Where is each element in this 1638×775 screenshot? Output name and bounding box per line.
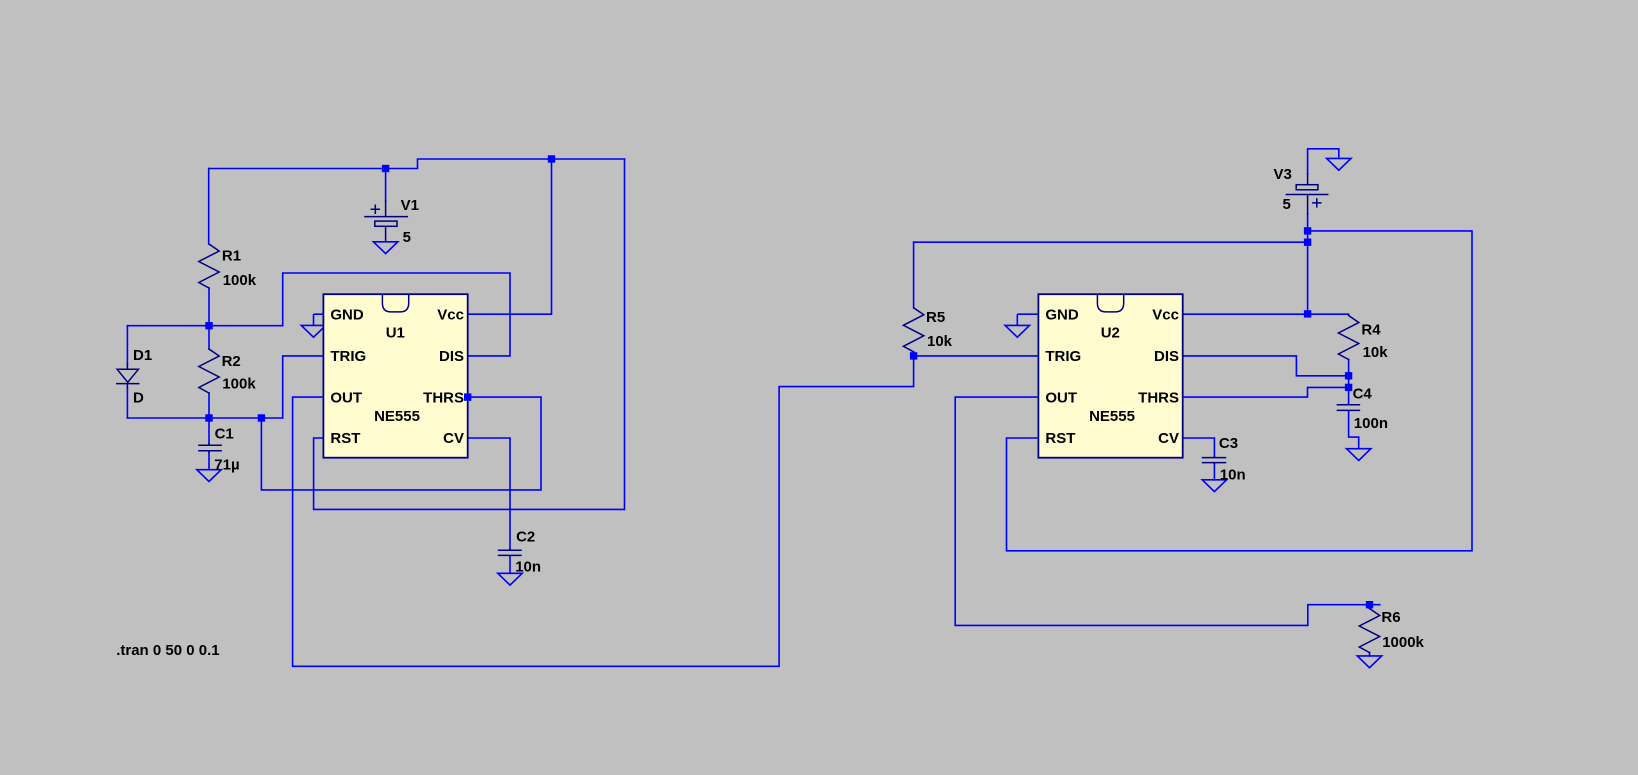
svg-text:R4: R4 xyxy=(1361,322,1381,339)
svg-text:DIS: DIS xyxy=(439,348,464,365)
svg-text:CV: CV xyxy=(1158,430,1179,447)
svg-text:5: 5 xyxy=(1283,196,1291,213)
svg-text:TRIG: TRIG xyxy=(330,348,366,365)
svg-text:OUT: OUT xyxy=(330,389,362,406)
svg-text:TRIG: TRIG xyxy=(1045,348,1081,365)
svg-text:R2: R2 xyxy=(222,353,241,370)
svg-text:THRS: THRS xyxy=(1138,389,1179,406)
svg-text:NE555: NE555 xyxy=(374,408,420,425)
svg-text:R5: R5 xyxy=(926,309,945,326)
svg-text:C3: C3 xyxy=(1219,435,1238,452)
svg-text:100k: 100k xyxy=(223,272,257,289)
svg-text:100n: 100n xyxy=(1354,415,1388,432)
svg-text:U1: U1 xyxy=(386,325,405,342)
svg-text:10n: 10n xyxy=(1220,466,1246,483)
svg-text:R1: R1 xyxy=(222,248,241,265)
svg-text:10k: 10k xyxy=(927,333,953,350)
svg-text:NE555: NE555 xyxy=(1089,408,1135,425)
svg-text:D1: D1 xyxy=(133,347,152,364)
svg-text:.tran 0 50 0 0.1: .tran 0 50 0 0.1 xyxy=(116,642,219,659)
svg-text:GND: GND xyxy=(1045,306,1079,323)
svg-text:RST: RST xyxy=(330,430,360,447)
svg-text:Vcc: Vcc xyxy=(1152,306,1179,323)
svg-text:U2: U2 xyxy=(1101,325,1120,342)
svg-text:Vcc: Vcc xyxy=(437,306,464,323)
svg-text:71µ: 71µ xyxy=(214,456,239,473)
svg-text:5: 5 xyxy=(403,229,411,246)
svg-text:GND: GND xyxy=(330,306,364,323)
svg-text:C2: C2 xyxy=(516,529,535,546)
svg-text:C1: C1 xyxy=(215,425,234,442)
svg-text:D: D xyxy=(133,389,144,406)
svg-text:THRS: THRS xyxy=(423,389,464,406)
svg-text:V1: V1 xyxy=(401,197,419,214)
svg-text:CV: CV xyxy=(443,430,464,447)
svg-text:10n: 10n xyxy=(515,558,541,575)
svg-text:DIS: DIS xyxy=(1154,348,1179,365)
svg-text:C4: C4 xyxy=(1353,386,1373,403)
svg-text:R6: R6 xyxy=(1381,609,1400,626)
svg-text:RST: RST xyxy=(1045,430,1075,447)
svg-text:10k: 10k xyxy=(1363,344,1389,361)
svg-text:1000k: 1000k xyxy=(1382,634,1424,651)
svg-text:V3: V3 xyxy=(1274,166,1292,183)
svg-text:100k: 100k xyxy=(222,375,256,392)
svg-text:OUT: OUT xyxy=(1045,389,1077,406)
